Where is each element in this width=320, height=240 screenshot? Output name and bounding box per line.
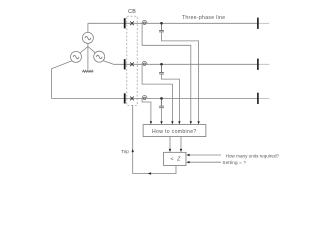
wire: G2 lead down-left, down, right to phase C bus	[52, 61, 73, 99]
wire: trip path from impedance unit to CB	[133, 105, 176, 173]
generator G3 (right phase source)	[94, 51, 105, 62]
wire: wye neutral node and source interconnect	[80, 43, 95, 69]
arrowheads into combiner box	[150, 121, 200, 124]
svg-text:< Z: < Z	[171, 157, 182, 163]
capacitor CVT phase A	[159, 23, 164, 32]
breaker contact phase B	[130, 62, 134, 66]
wire: CT-C secondary lead routed to relay	[142, 98, 151, 121]
generator G1 (top phase source)	[82, 32, 93, 43]
wire: CT-A secondary lead routed to relay	[142, 23, 191, 121]
bus bar left phase C	[124, 93, 126, 103]
capacitor CVT phase C	[159, 98, 164, 107]
svg-text:How many units required?: How many units required?	[226, 154, 280, 159]
wire: CVT-A signal routed to relay	[162, 32, 199, 121]
wire: combiner outputs to impedance unit	[170, 137, 181, 151]
bus bar left phase A	[124, 18, 126, 28]
svg-text:Trip: Trip	[121, 149, 129, 154]
wire: phase C line	[52, 97, 259, 99]
svg-text:Setting = ?: Setting = ?	[222, 160, 246, 165]
wire: G1 up to phase A	[87, 23, 89, 32]
ground (neutral grounding squiggle)	[82, 70, 93, 72]
wire: CVT-C signal down to relay	[161, 108, 163, 122]
breaker contact phase C	[130, 97, 134, 101]
CT phase B (arch, core circle, secondary lead)	[142, 61, 147, 65]
svg-text:How to combine?: How to combine?	[152, 129, 197, 135]
svg-text:CB: CB	[128, 9, 136, 15]
bus bar right phase B	[257, 59, 259, 70]
wire: phase B line	[113, 63, 258, 65]
bus bar right phase A	[257, 18, 259, 29]
circuit breaker CB dashed enclosure	[127, 16, 137, 105]
bus bar right phase C	[257, 93, 259, 104]
CT phase C (arch, core circle, secondary lead)	[142, 96, 147, 100]
CT phase A (arch, core circle, secondary lead)	[142, 20, 147, 24]
combiner box How to combine?	[143, 125, 206, 137]
arrow: How many units required?	[189, 154, 221, 156]
wire: CVT-B signal routed to relay	[162, 74, 180, 121]
node: phase B voltage tap	[160, 63, 163, 66]
wire: G3 lead down-right to phase B	[103, 61, 113, 65]
bus bar left phase B	[124, 59, 126, 69]
capacitor CVT phase B	[159, 64, 164, 74]
wire: CT-B secondary lead routed to relay	[142, 64, 172, 121]
node: phase A voltage tap	[160, 22, 163, 25]
arrowhead trip up	[132, 149, 134, 152]
breaker contact phase A	[130, 21, 134, 25]
node: phase C voltage tap	[160, 97, 163, 100]
wire: phase A line	[88, 22, 259, 24]
svg-text:Three-phase line: Three-phase line	[182, 15, 226, 21]
generator G2 (left phase source)	[71, 51, 82, 62]
arrowhead trip left	[148, 172, 151, 174]
impedance unit box < Z	[164, 152, 186, 165]
arrow: Setting = ?	[189, 161, 221, 163]
